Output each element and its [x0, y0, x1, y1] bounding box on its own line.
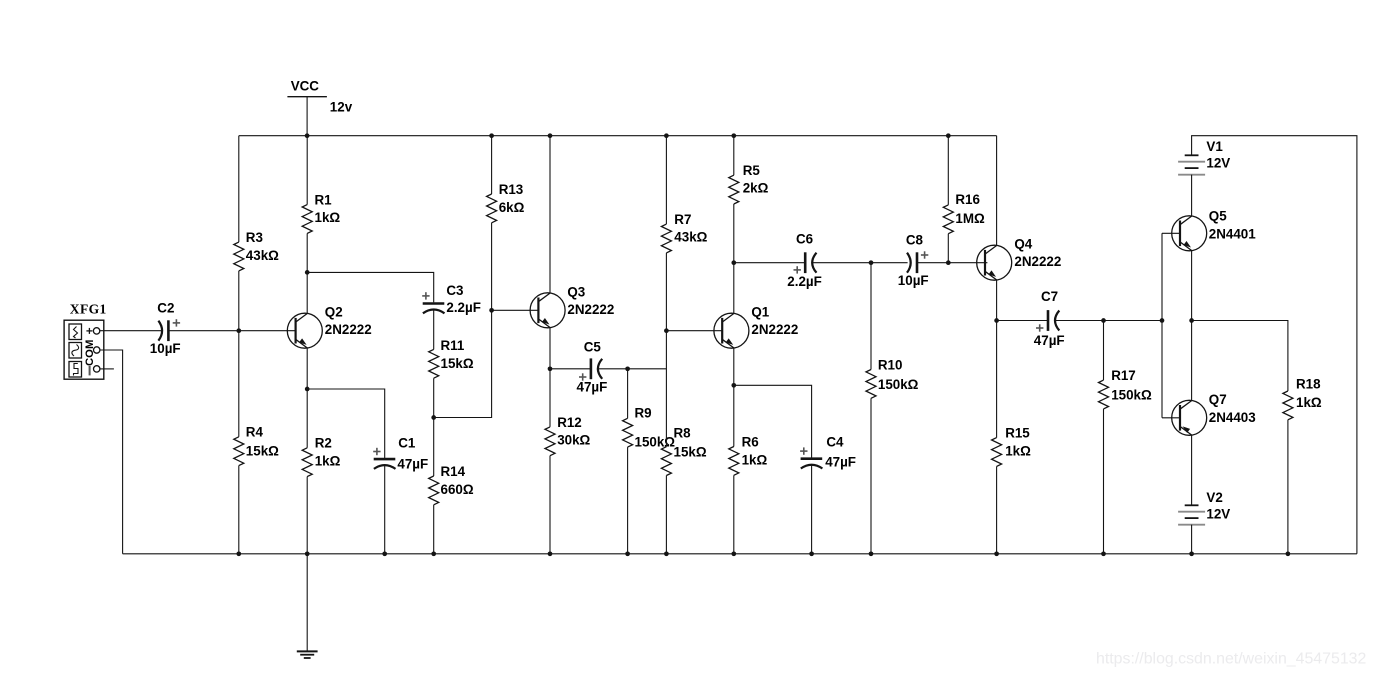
wire Q3 emitter node to R12	[549, 369, 551, 427]
capacitor C6 2.2uF	[787, 232, 822, 289]
resistor R9	[623, 406, 676, 450]
junction R17 node	[1101, 318, 1106, 323]
power VCC	[287, 78, 352, 114]
wire top rail to R16	[947, 136, 949, 205]
svg-text:150kΩ: 150kΩ	[1111, 387, 1152, 402]
svg-text:C2: C2	[157, 301, 174, 316]
svg-text:R5: R5	[743, 163, 761, 178]
svg-text:C7: C7	[1041, 289, 1058, 304]
svg-text:R15: R15	[1005, 426, 1030, 441]
svg-text:C8: C8	[906, 232, 924, 247]
junction R15 at ground rail	[994, 551, 999, 556]
junction Q1 collector node	[731, 260, 736, 265]
junction R10 node	[869, 260, 874, 265]
svg-text:R14: R14	[441, 464, 466, 479]
wire Q4 emitter node to R15	[996, 321, 998, 438]
wire feedback node to R13 column	[434, 223, 492, 418]
wire C6 to R10 node	[813, 262, 872, 264]
wire Q3 emitter lead	[549, 328, 551, 369]
junction R7 at top rail	[664, 133, 669, 138]
wire Q4 emitter node to C7	[997, 320, 1048, 322]
junction R8 at ground rail	[664, 551, 669, 556]
svg-text:R12: R12	[557, 415, 582, 430]
wire XFG1 COM down to ground rail	[100, 350, 123, 554]
junction R18 at ground rail	[1286, 551, 1291, 556]
svg-text:2N2222: 2N2222	[1014, 254, 1061, 269]
wire XFG1 plus to C2	[100, 330, 162, 332]
junction R16 at top rail	[946, 133, 951, 138]
svg-text:XFG1: XFG1	[70, 301, 107, 316]
svg-text:1MΩ: 1MΩ	[955, 211, 985, 226]
svg-text:2.2µF: 2.2µF	[446, 300, 481, 315]
wire top rail to R5	[733, 136, 735, 176]
transistor Q1	[714, 304, 798, 348]
wire Q2 emitter lead	[306, 348, 308, 389]
resistor R13	[487, 182, 525, 223]
svg-text:Q4: Q4	[1014, 236, 1032, 251]
wire Q1 emitter node to R6	[733, 385, 735, 446]
svg-text:Q3: Q3	[567, 284, 585, 299]
resistor R1	[302, 193, 340, 234]
wire ground stem	[306, 554, 308, 652]
capacitor C8 10uF	[898, 232, 929, 288]
transistor Q3	[530, 284, 614, 328]
battery V1 12V	[1178, 139, 1230, 175]
wire R10 node to R10	[870, 263, 872, 370]
junction Q3 emitter node	[548, 366, 553, 371]
wire R12 to ground rail	[549, 456, 551, 554]
svg-text:R3: R3	[246, 230, 263, 245]
wire V1 top to corner	[1192, 136, 1357, 554]
wire C4 to ground rail	[811, 465, 813, 554]
wire Q1 base node down to R8	[665, 331, 667, 447]
resistor R3	[234, 230, 279, 271]
svg-text:Q1: Q1	[751, 304, 769, 319]
junction C1 at ground rail	[382, 551, 387, 556]
resistor R7	[661, 212, 707, 253]
capacitor C4 47uF	[800, 435, 856, 470]
svg-text:2kΩ: 2kΩ	[743, 181, 769, 196]
wire R6 to ground rail	[733, 475, 735, 554]
resistor R2	[302, 436, 340, 477]
svg-text:2N4403: 2N4403	[1209, 410, 1256, 425]
wire top rail to Q3 collector	[549, 136, 551, 294]
wire R4 to ground rail	[238, 466, 240, 554]
wire Q2 collector node to C3	[307, 272, 434, 302]
svg-text:15kΩ: 15kΩ	[246, 443, 279, 458]
svg-text:R9: R9	[635, 406, 652, 421]
svg-text:Q7: Q7	[1209, 392, 1227, 407]
wire C3 to R11	[433, 310, 435, 350]
svg-text:6kΩ: 6kΩ	[499, 200, 525, 215]
wire Q1 base wire	[666, 330, 722, 332]
svg-text:43kΩ: 43kΩ	[246, 248, 279, 263]
svg-text:15kΩ: 15kΩ	[441, 356, 474, 371]
junction R12 at ground rail	[548, 551, 553, 556]
junction Q1 base node	[664, 328, 669, 333]
resistor R18	[1283, 377, 1322, 420]
resistor R8	[661, 426, 706, 476]
svg-text:150kΩ: 150kΩ	[878, 377, 919, 392]
svg-text:R18: R18	[1296, 377, 1321, 392]
svg-text:R16: R16	[955, 192, 980, 207]
wire input node to R4	[238, 331, 240, 437]
wire R17 to ground rail	[1103, 409, 1105, 554]
wire R16 to Q4 base node	[947, 234, 949, 263]
svg-text:12V: 12V	[1206, 506, 1230, 521]
junction R5 at top rail	[731, 133, 736, 138]
svg-text:1kΩ: 1kΩ	[1296, 395, 1322, 410]
svg-text:R1: R1	[315, 193, 333, 208]
wire C1 to ground rail	[384, 466, 386, 554]
resistor R4	[234, 425, 279, 466]
wire R1 to Q2 collector node	[306, 233, 308, 272]
resistor R16	[943, 192, 985, 234]
wire Q2 emitter node to R2	[306, 389, 308, 448]
transistor Q4	[977, 236, 1062, 280]
wire top rail to R13	[491, 136, 493, 194]
wire R8 to ground rail	[665, 476, 667, 554]
junction output node	[1189, 318, 1194, 323]
wire C8 to Q4 base	[917, 262, 987, 264]
svg-text:C1: C1	[398, 436, 416, 451]
wire R5 to Q1 collector node	[733, 204, 735, 263]
svg-text:R11: R11	[441, 338, 465, 353]
wire output node to Q7 emitter	[1191, 321, 1193, 401]
junction R9 node	[625, 366, 630, 371]
svg-text:47µF: 47µF	[825, 454, 856, 469]
junction V2 at ground rail	[1189, 551, 1194, 556]
junction feedback node	[431, 415, 436, 420]
svg-text:2N4401: 2N4401	[1209, 226, 1256, 241]
svg-text:Q2: Q2	[325, 304, 343, 319]
svg-text:47µF: 47µF	[1034, 333, 1065, 348]
wire Q1 emitter lead	[733, 348, 735, 385]
svg-text:https://blog.csdn.net/weixin_4: https://blog.csdn.net/weixin_45475132	[1096, 651, 1366, 668]
instrument XFG1	[64, 301, 107, 379]
svg-text:R7: R7	[674, 212, 691, 227]
battery V2 12V	[1178, 490, 1230, 525]
svg-text:C3: C3	[446, 283, 463, 298]
svg-text:R8: R8	[674, 426, 692, 441]
svg-text:Q5: Q5	[1209, 208, 1227, 223]
wire output node to R18	[1192, 321, 1288, 392]
resistor R12	[545, 415, 591, 456]
junction Q3 collector at top rail	[548, 133, 553, 138]
svg-text:10µF: 10µF	[898, 273, 929, 288]
svg-text:47µF: 47µF	[397, 456, 428, 471]
svg-text:VCC: VCC	[291, 78, 320, 93]
wire C7 to R17 node	[1055, 320, 1103, 322]
svg-text:R6: R6	[742, 434, 759, 449]
wire XFG1 minus stub	[100, 368, 114, 370]
wire Q3 emitter node to C5	[550, 368, 591, 370]
wire Q5 base wire	[1162, 232, 1180, 234]
resistor R15	[992, 426, 1031, 467]
junction VCC at top rail	[305, 133, 310, 138]
wire V1 to Q5 collector	[1191, 175, 1193, 216]
wire bottom rail (ground net)	[123, 553, 1357, 555]
svg-text:1kΩ: 1kΩ	[1005, 444, 1031, 459]
svg-text:12v: 12v	[330, 100, 353, 115]
capacitor C3 2.2uF	[422, 283, 481, 315]
svg-text:10µF: 10µF	[150, 341, 181, 356]
svg-text:C5: C5	[584, 339, 602, 354]
capacitor C1 47uF	[373, 436, 428, 472]
svg-text:43kΩ: 43kΩ	[674, 230, 707, 245]
wire Q3 base wire	[492, 309, 539, 311]
resistor R5	[729, 163, 769, 204]
junction R2 at ground rail	[305, 551, 310, 556]
svg-text:V1: V1	[1206, 139, 1223, 154]
transistor Q7	[1172, 392, 1256, 435]
resistor R6	[729, 434, 768, 475]
junction R14 at ground rail	[431, 551, 436, 556]
junction Q2 collector node	[305, 270, 310, 275]
svg-text:R2: R2	[315, 436, 332, 451]
wire top rail	[239, 135, 997, 137]
svg-text:660Ω: 660Ω	[441, 482, 474, 497]
wire R10 node to C8	[871, 262, 908, 264]
wire Q4 emitter lead	[996, 280, 998, 321]
svg-text:12V: 12V	[1206, 155, 1230, 170]
resistor R11	[429, 338, 474, 378]
capacitor C5 47uF	[577, 339, 608, 394]
svg-text:30kΩ: 30kΩ	[557, 432, 590, 447]
wire R9 node to R7/R8 column	[628, 368, 667, 370]
wire Q7 base wire	[1162, 417, 1180, 419]
ground	[297, 651, 318, 658]
wire feedback node to R14	[433, 418, 435, 477]
wire R9 node to R9	[627, 369, 629, 419]
svg-text:2N2222: 2N2222	[751, 322, 798, 337]
junction R10 at ground rail	[869, 551, 874, 556]
wire C5 to R9 node	[598, 368, 627, 370]
junction R4 at ground rail	[236, 551, 241, 556]
svg-text:150kΩ: 150kΩ	[635, 434, 676, 449]
wire top rail to R7	[665, 136, 667, 224]
wire C2 to Q2 base	[168, 330, 296, 332]
wire top rail to R3	[238, 136, 240, 242]
resistor R14	[429, 464, 474, 505]
wire base tie vertical	[1161, 233, 1163, 417]
wire R10 to ground rail	[870, 398, 872, 554]
wire R17 node to R17	[1103, 321, 1105, 381]
wire R18 to ground rail	[1287, 420, 1289, 554]
junction Q4 emitter node	[994, 318, 999, 323]
junction R13 at top rail	[489, 133, 494, 138]
junction Q3 base node	[489, 308, 494, 313]
capacitor C7 47uF	[1034, 289, 1065, 348]
junction Q2 emitter node	[305, 387, 310, 392]
wire Q1 collector node to C6	[734, 262, 805, 264]
svg-text:R13: R13	[499, 182, 524, 197]
wire top rail to R1	[306, 136, 308, 205]
wire R14 to ground rail	[433, 505, 435, 554]
wire Q5 emitter lead	[1191, 251, 1193, 321]
svg-text:R10: R10	[878, 357, 903, 372]
svg-text:R4: R4	[246, 425, 264, 440]
capacitor C2 10uF	[150, 301, 181, 356]
wire Q2 emitter node to C1	[307, 389, 385, 459]
wire top rail to Q4 collector	[996, 136, 998, 246]
junction R6 at ground rail	[731, 551, 736, 556]
junction Q1 emitter node	[731, 383, 736, 388]
wire Q2 collector lead	[306, 272, 308, 313]
wire R15 to ground rail	[996, 466, 998, 553]
wire R9 to ground rail	[627, 447, 629, 554]
junction input node at R3/R4	[236, 328, 241, 333]
junction Q4 base node	[946, 260, 951, 265]
svg-text:1kΩ: 1kΩ	[742, 453, 768, 468]
wire VCC stem	[306, 97, 308, 136]
wire Q7 collector to V2	[1191, 435, 1193, 505]
transistor Q5	[1172, 208, 1257, 251]
resistor R17	[1099, 368, 1152, 409]
wire V2 to ground rail	[1191, 525, 1193, 554]
wire R3 to input node	[238, 271, 240, 331]
svg-text:2.2µF: 2.2µF	[787, 274, 822, 289]
svg-text:2N2222: 2N2222	[567, 302, 614, 317]
junction base tie at C7 node	[1160, 318, 1165, 323]
svg-text:V2: V2	[1206, 490, 1222, 505]
svg-text:15kΩ: 15kΩ	[674, 445, 707, 460]
svg-text:C6: C6	[796, 232, 813, 247]
svg-text:1kΩ: 1kΩ	[315, 210, 341, 225]
wire Q1 collector lead	[733, 263, 735, 314]
wire Q1 emitter node to C4	[734, 385, 812, 458]
wire R2 to ground rail	[306, 477, 308, 554]
junction R9 at ground rail	[625, 551, 630, 556]
svg-text:2N2222: 2N2222	[325, 322, 372, 337]
transistor Q2	[287, 304, 371, 348]
wire R17 node to base tie	[1104, 320, 1163, 322]
wire R11 to feedback node	[433, 378, 435, 417]
svg-text:1kΩ: 1kΩ	[315, 453, 341, 468]
junction C4 at ground rail	[809, 551, 814, 556]
junction R17 at ground rail	[1101, 551, 1106, 556]
svg-text:R17: R17	[1111, 368, 1136, 383]
svg-text:C4: C4	[826, 435, 844, 450]
resistor R10	[866, 357, 919, 398]
wire R7 to Q1 base node	[665, 253, 667, 331]
svg-text:47µF: 47µF	[577, 380, 608, 395]
